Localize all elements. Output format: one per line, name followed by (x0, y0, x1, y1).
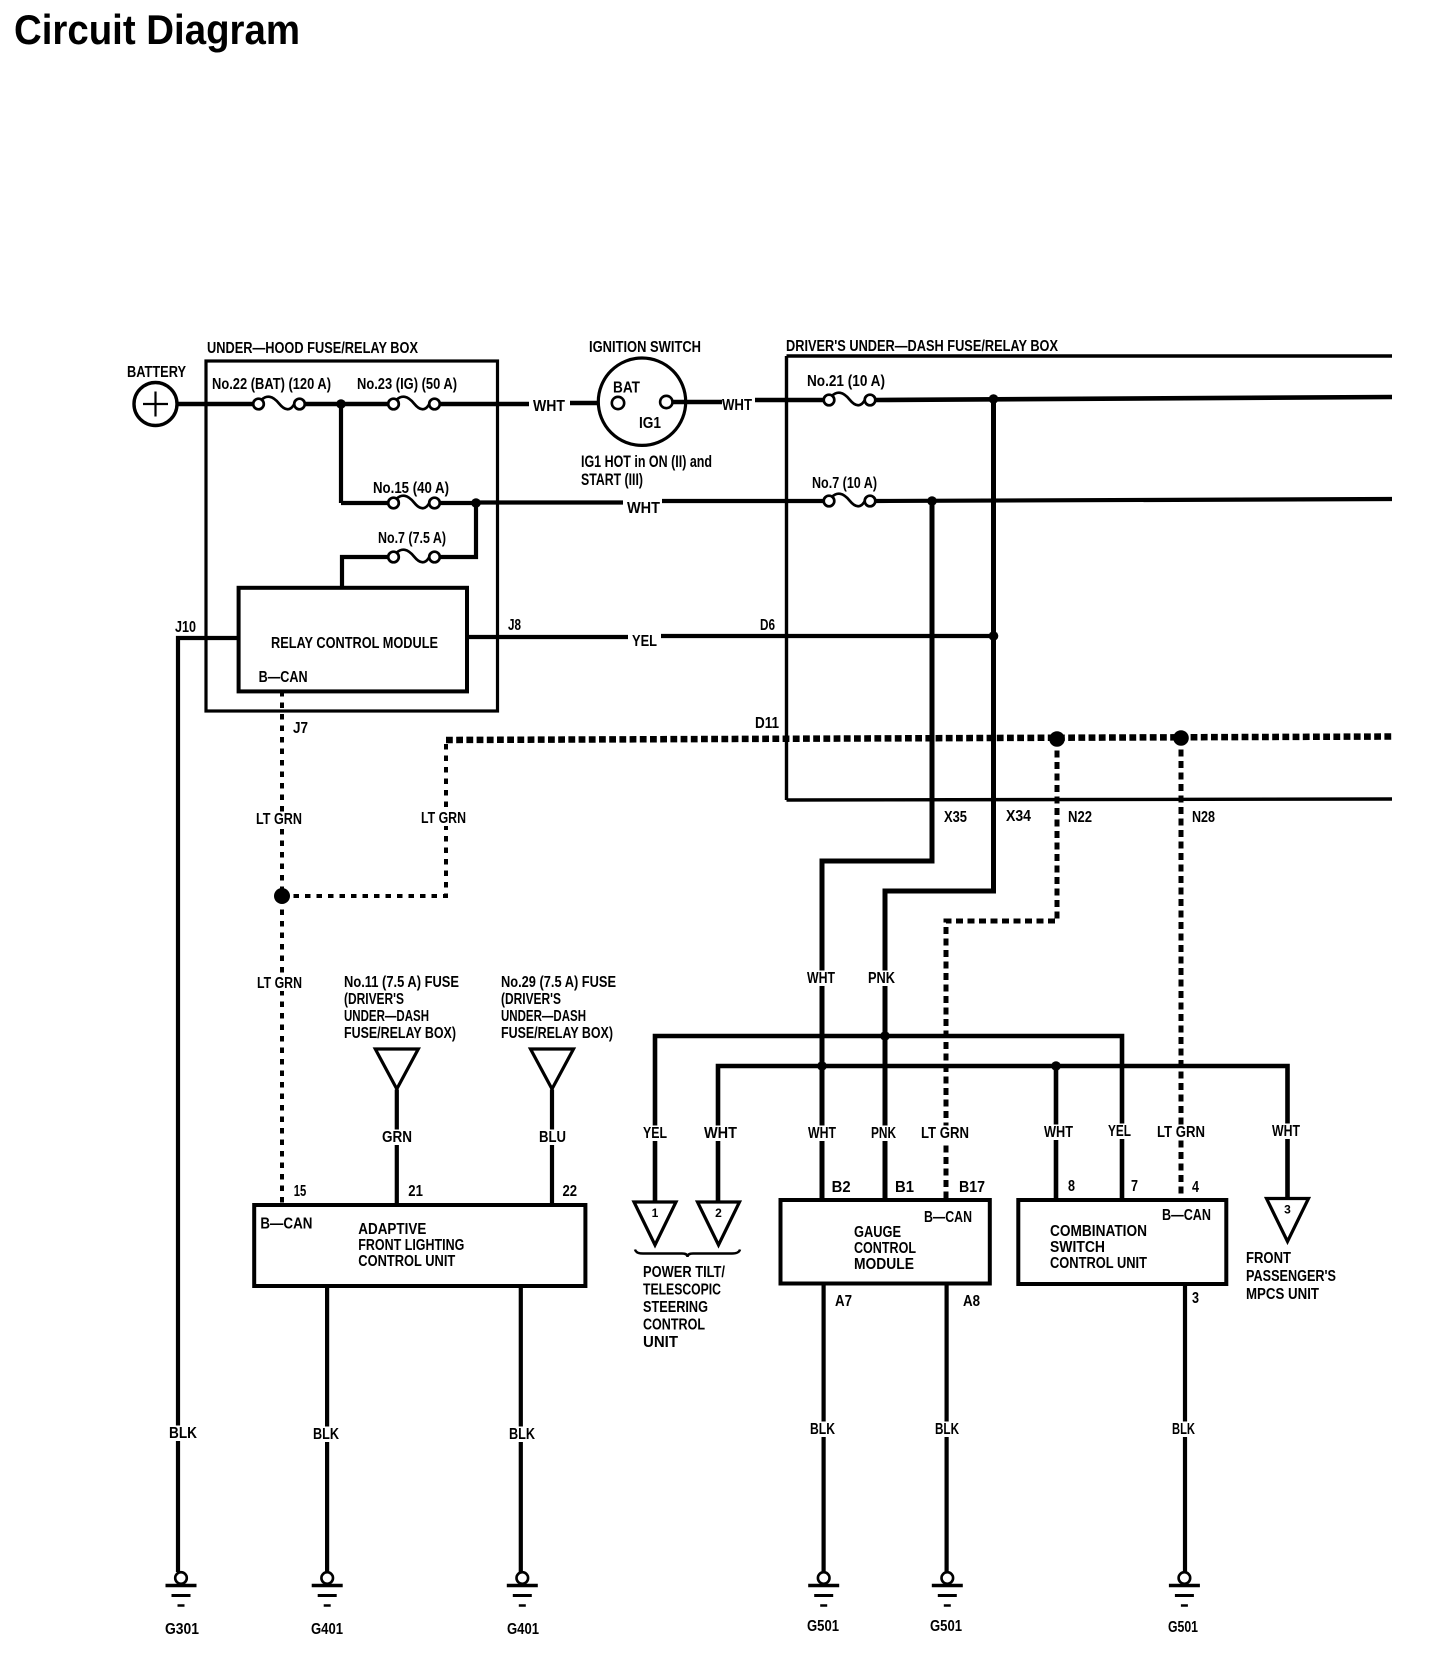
wire WHT to ignition BAT pin (570, 401, 613, 406)
svg-text:IG1 HOT in ON (II) and: IG1 HOT in ON (II) and (581, 453, 712, 471)
svg-text:LT GRN: LT GRN (921, 1125, 969, 1142)
svg-text:1: 1 (652, 1206, 659, 1220)
svg-text:15: 15 (294, 1183, 307, 1200)
wire LT GRN label lower (255, 975, 305, 992)
svg-text:B2: B2 (832, 1179, 851, 1196)
wire WHT label riser X35 lower (806, 1125, 839, 1142)
wire WHT label right of ignition (722, 397, 752, 414)
svg-text:BLK: BLK (169, 1425, 197, 1442)
wire to fuse No.15 (341, 501, 388, 505)
node junction fuse No.15 output (471, 498, 481, 508)
fuse No.29 (7.5 A) label (501, 974, 616, 1042)
wire fuse No.21 to right edge (876, 397, 1393, 400)
node junction WHT riser on WHT bus (817, 1061, 827, 1071)
svg-text:B1: B1 (895, 1179, 914, 1196)
pin B17 label (959, 1179, 985, 1196)
svg-text:B—CAN: B—CAN (924, 1209, 972, 1226)
svg-text:IGNITION SWITCH: IGNITION SWITCH (589, 339, 701, 356)
svg-text:BLK: BLK (509, 1426, 535, 1443)
svg-text:CONTROL UNIT: CONTROL UNIT (1050, 1255, 1147, 1272)
wire N28 dashed riser (1179, 738, 1184, 1200)
wire D11 B-CAN dashed bus (446, 737, 1392, 741)
svg-text:FUSE/RELAY BOX): FUSE/RELAY BOX) (344, 1025, 456, 1042)
svg-text:X34: X34 (1006, 808, 1031, 825)
wire BLK label adaptive left (311, 1426, 342, 1443)
svg-text:UNDER—DASH: UNDER—DASH (501, 1008, 586, 1025)
fuse No.7 (10 A) (812, 475, 877, 506)
svg-text:2: 2 (715, 1206, 722, 1220)
wire fuse No.7 7.5A up to No.15 junction (440, 503, 477, 557)
svg-text:WHT: WHT (807, 970, 835, 987)
svg-text:J10: J10 (175, 619, 196, 636)
node junction battery feed (336, 399, 346, 409)
battery (127, 364, 186, 426)
svg-text:BLK: BLK (810, 1421, 835, 1438)
wire junction down to fuse No.15 (339, 404, 343, 503)
svg-text:G501: G501 (930, 1618, 962, 1635)
wire WHT bus (718, 1066, 1288, 1203)
wire YEL label (632, 633, 657, 650)
wire fuse No.22 to junction (305, 402, 389, 407)
wire BLK label adaptive right (507, 1426, 538, 1443)
svg-text:X35: X35 (944, 809, 967, 826)
pin X35 label (944, 809, 967, 826)
ground G501 second (930, 1572, 963, 1635)
fuse No.23 (IG) (50 A) (357, 376, 457, 409)
svg-text:No.21 (10 A): No.21 (10 A) (807, 373, 885, 390)
pin B1 label (895, 1179, 914, 1196)
ground G501 first (807, 1572, 839, 1635)
svg-text:8: 8 (1068, 1178, 1075, 1195)
svg-text:G401: G401 (311, 1621, 343, 1638)
wire riser X35 (822, 501, 932, 1200)
svg-text:BLK: BLK (935, 1421, 959, 1438)
driver's under-dash fuse/relay box (786, 338, 1392, 800)
ignition note (581, 453, 712, 489)
svg-text:7: 7 (1131, 1178, 1138, 1195)
wire fuse No.23 to WHT label (440, 402, 530, 407)
svg-text:WHT: WHT (722, 397, 752, 414)
pin B2 label (832, 1179, 851, 1196)
svg-text:21: 21 (408, 1183, 423, 1200)
svg-text:BLK: BLK (1172, 1421, 1195, 1438)
power tilt brace (635, 1250, 740, 1258)
svg-text:GRN: GRN (382, 1129, 412, 1146)
svg-text:G501: G501 (1168, 1619, 1198, 1636)
power tilt unit label (643, 1264, 725, 1351)
svg-text:UNDER—HOOD FUSE/RELAY BOX: UNDER—HOOD FUSE/RELAY BOX (207, 340, 418, 357)
svg-text:Circuit Diagram: Circuit Diagram (14, 6, 300, 53)
wire YEL to driver box riser (661, 634, 994, 638)
svg-text:DRIVER'S UNDER—DASH FUSE/RELAY: DRIVER'S UNDER—DASH FUSE/RELAY BOX (786, 338, 1058, 355)
wire LT GRN label elbow (419, 810, 469, 827)
wire WHT label (533, 398, 565, 415)
svg-text:No.11 (7.5 A) FUSE: No.11 (7.5 A) FUSE (344, 974, 459, 991)
svg-text:WHT: WHT (1272, 1123, 1300, 1140)
wire LT GRN label upper (254, 811, 305, 828)
wire WHT to comb pin 8 (1054, 1066, 1059, 1200)
pin A8 label (963, 1293, 980, 1310)
svg-text:LT GRN: LT GRN (1157, 1124, 1205, 1141)
svg-text:J8: J8 (508, 617, 521, 634)
wire No.15 junction to WHT label (476, 500, 623, 504)
pin 22 label (563, 1183, 578, 1200)
svg-text:MODULE: MODULE (854, 1256, 914, 1273)
pin N28 label (1192, 809, 1215, 826)
svg-text:WHT: WHT (533, 398, 565, 415)
svg-text:MPCS UNIT: MPCS UNIT (1246, 1286, 1319, 1303)
svg-text:(DRIVER'S: (DRIVER'S (501, 991, 561, 1008)
wire elbow to fuse No.7 7.5A (342, 557, 388, 587)
svg-text:No.7 (7.5 A): No.7 (7.5 A) (378, 530, 446, 547)
wire GRN label (380, 1129, 415, 1146)
node junction B-CAN dashed (274, 888, 290, 904)
svg-text:G401: G401 (507, 1621, 539, 1638)
svg-text:B—CAN: B—CAN (259, 669, 308, 686)
svg-text:BATTERY: BATTERY (127, 364, 186, 381)
node junction pin8 on WHT bus (1051, 1061, 1061, 1071)
wire fuse No.7 to right edge (876, 499, 1393, 501)
node junction PNK on YEL bus (880, 1031, 890, 1041)
svg-text:No.23 (IG) (50 A): No.23 (IG) (50 A) (357, 376, 457, 393)
pin 8 label (1068, 1178, 1075, 1195)
wire BLK label A7 (808, 1421, 838, 1438)
svg-text:START (III): START (III) (581, 471, 643, 489)
svg-text:UNIT: UNIT (643, 1334, 678, 1351)
svg-text:COMBINATION: COMBINATION (1050, 1223, 1147, 1240)
wire BLK label A8 (933, 1421, 962, 1438)
wire battery to fuse No.22 (177, 402, 253, 407)
fuse No.11 (7.5 A) label (344, 974, 459, 1042)
wire WHT into driver box to fuse No.7 (662, 499, 824, 503)
svg-text:B—CAN: B—CAN (1162, 1207, 1211, 1224)
wire WHT label comb pin 8 (1042, 1124, 1076, 1141)
svg-text:N28: N28 (1192, 809, 1215, 826)
pin 3 label (1192, 1290, 1199, 1307)
svg-text:BLU: BLU (539, 1129, 566, 1146)
svg-text:UNDER—DASH: UNDER—DASH (344, 1008, 429, 1025)
ground G501 third (1168, 1572, 1200, 1636)
wire A7 BLK to ground (821, 1284, 825, 1573)
wire fuse No.15 to junction (440, 501, 477, 505)
svg-text:IG1: IG1 (639, 415, 661, 432)
svg-text:A7: A7 (835, 1293, 852, 1310)
svg-text:WHT: WHT (1044, 1124, 1073, 1141)
pin D6 label (760, 617, 775, 634)
node junction N28 on D11 (1173, 730, 1189, 746)
svg-text:No.15 (40 A): No.15 (40 A) (373, 480, 449, 497)
wire BLK adaptive left (325, 1286, 329, 1572)
svg-text:No.22 (BAT) (120 A): No.22 (BAT) (120 A) (212, 376, 331, 393)
pin X34 label (1006, 808, 1031, 825)
node junction at X35 riser (927, 496, 937, 506)
svg-text:3: 3 (1192, 1290, 1199, 1307)
wire IG1 pin to WHT label (673, 400, 723, 405)
wire BLU label (537, 1129, 569, 1146)
pin J8 label (508, 617, 521, 634)
pin 7 label (1131, 1178, 1138, 1195)
wire J10 to left edge (178, 638, 239, 1572)
wire J8 YEL to junction (467, 635, 628, 639)
svg-text:3: 3 (1284, 1203, 1291, 1217)
pin D11 label (755, 715, 779, 732)
node junction at X34 riser (989, 394, 999, 404)
svg-text:22: 22 (563, 1183, 578, 1200)
svg-text:N22: N22 (1068, 809, 1092, 826)
svg-text:TELESCOPIC: TELESCOPIC (643, 1282, 721, 1299)
svg-text:YEL: YEL (643, 1125, 667, 1142)
wire WHT label right (1270, 1123, 1303, 1140)
svg-text:SWITCH: SWITCH (1050, 1239, 1105, 1256)
fuse No.21 (10 A) (807, 373, 885, 405)
wire BLU to pin 22 (550, 1090, 554, 1206)
wire YEL label right (1106, 1123, 1134, 1140)
pin 4 label (1192, 1179, 1199, 1196)
wire WHT label mid (627, 500, 660, 517)
wire BLK label J10 (167, 1425, 200, 1442)
svg-text:A8: A8 (963, 1293, 980, 1310)
fuse No.7 (7.5 A) (378, 530, 446, 562)
svg-text:WHT: WHT (808, 1125, 836, 1142)
svg-text:B—CAN: B—CAN (260, 1215, 312, 1232)
svg-text:(DRIVER'S: (DRIVER'S (344, 991, 404, 1008)
adaptive front lighting control unit (254, 1205, 585, 1286)
svg-text:No.29 (7.5 A) FUSE: No.29 (7.5 A) FUSE (501, 974, 616, 991)
wire GRN to pin 21 (395, 1090, 399, 1206)
svg-text:STEERING: STEERING (643, 1299, 708, 1316)
wire dashed elbow to D11 (282, 741, 446, 896)
ground G401 second (507, 1572, 539, 1638)
connector triangle 2 (698, 1202, 740, 1245)
wire BLK label comb (1170, 1421, 1198, 1438)
svg-text:RELAY CONTROL MODULE: RELAY CONTROL MODULE (271, 635, 438, 652)
wire J7 B-CAN dashed (280, 691, 284, 1203)
wire PNK label riser X34 lower (869, 1125, 899, 1142)
wire WHT label left (702, 1125, 740, 1142)
relay control module (239, 588, 467, 692)
svg-text:PASSENGER'S: PASSENGER'S (1246, 1268, 1336, 1285)
svg-text:LT GRN: LT GRN (421, 810, 466, 827)
svg-text:B17: B17 (959, 1179, 985, 1196)
svg-text:POWER TILT/: POWER TILT/ (643, 1264, 725, 1281)
svg-text:GAUGE: GAUGE (854, 1224, 901, 1241)
svg-text:No.7 (10 A): No.7 (10 A) (812, 475, 877, 492)
svg-text:FRONT LIGHTING: FRONT LIGHTING (358, 1237, 464, 1254)
wire A8 BLK to ground (944, 1284, 948, 1573)
pin J10 label (175, 619, 196, 636)
svg-text:LT GRN: LT GRN (256, 811, 302, 828)
svg-text:D6: D6 (760, 617, 775, 634)
fuse No.11 connector triangle (375, 1049, 418, 1089)
ground G301 (165, 1572, 199, 1638)
pin A7 label (835, 1293, 852, 1310)
wire WHT into driver box (755, 398, 824, 403)
fuse No.22 (BAT) (120 A) (212, 376, 331, 409)
pin J7 label (293, 720, 308, 737)
pin 15 label (294, 1183, 307, 1200)
svg-text:G301: G301 (165, 1621, 199, 1638)
svg-text:BAT: BAT (613, 380, 640, 397)
svg-text:PNK: PNK (868, 970, 895, 987)
svg-text:ADAPTIVE: ADAPTIVE (358, 1221, 426, 1238)
pin 21 label (408, 1183, 423, 1200)
svg-text:CONTROL: CONTROL (643, 1317, 705, 1334)
svg-text:FUSE/RELAY BOX): FUSE/RELAY BOX) (501, 1025, 613, 1042)
svg-text:YEL: YEL (632, 633, 657, 650)
wire YEL bus (655, 1036, 1122, 1203)
svg-text:FRONT: FRONT (1246, 1250, 1291, 1267)
svg-text:G501: G501 (807, 1618, 839, 1635)
svg-text:CONTROL UNIT: CONTROL UNIT (358, 1253, 455, 1270)
wire LT GRN label N22 (919, 1125, 972, 1142)
svg-text:J7: J7 (293, 720, 308, 737)
node junction YEL at riser (989, 631, 999, 641)
svg-text:CONTROL: CONTROL (854, 1240, 916, 1257)
wire BLK adaptive right (519, 1286, 523, 1572)
svg-text:BLK: BLK (313, 1426, 339, 1443)
node junction N22 on D11 (1049, 731, 1065, 747)
svg-text:YEL: YEL (1108, 1123, 1131, 1140)
connector triangle 1 (634, 1202, 676, 1245)
under-hood fuse/relay box (206, 340, 498, 711)
wire LT GRN label N28 (1155, 1124, 1208, 1141)
svg-text:WHT: WHT (704, 1125, 737, 1142)
front passenger MPCS label (1246, 1250, 1336, 1303)
wire N22 dashed riser (946, 739, 1057, 1200)
ignition switch (589, 339, 701, 445)
svg-text:PNK: PNK (871, 1125, 896, 1142)
svg-text:LT GRN: LT GRN (257, 975, 302, 992)
fuse No.15 (40 A) (373, 480, 449, 508)
title (14, 6, 300, 53)
svg-text:D11: D11 (755, 715, 779, 732)
wire YEL label left (641, 1125, 670, 1142)
wire riser X34 (885, 399, 994, 1200)
svg-text:4: 4 (1192, 1179, 1199, 1196)
wire comb pin 3 BLK to ground (1183, 1284, 1187, 1572)
gauge control module (781, 1200, 990, 1284)
wire WHT label riser X35 (805, 970, 838, 987)
connector triangle 3 (1267, 1199, 1309, 1242)
fuse No.29 connector triangle (531, 1049, 574, 1089)
wire PNK label riser X34 (866, 970, 898, 987)
pin N22 label (1068, 809, 1092, 826)
ground G401 first (311, 1572, 343, 1638)
svg-text:WHT: WHT (627, 500, 660, 517)
combination switch control unit (1018, 1200, 1226, 1284)
